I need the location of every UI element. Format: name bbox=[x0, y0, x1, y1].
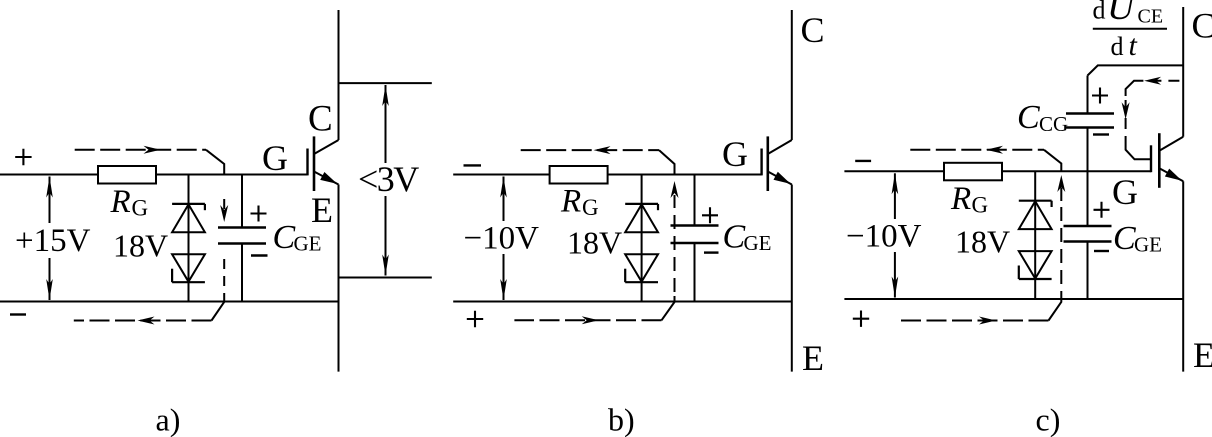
svg-text:C: C bbox=[801, 10, 825, 50]
resistor RG (a) bbox=[98, 166, 156, 184]
dashed path: down & bottom return (a) bbox=[223, 259, 225, 296]
svg-text:d: d bbox=[1111, 32, 1124, 61]
capacitor CGE (a) bbox=[218, 226, 266, 229]
svg-text:CG: CG bbox=[1039, 112, 1068, 136]
svg-text:C: C bbox=[723, 219, 746, 256]
IGBT V (b): body bar bbox=[766, 136, 769, 191]
supply + terminal (c) bbox=[853, 311, 869, 327]
IGBT V (a): emitter stroke bbox=[314, 172, 339, 185]
arrow left on bottom dashed path (a) bbox=[138, 317, 155, 325]
supply + terminal (b) bbox=[467, 311, 483, 327]
IGBT V (c): body bar bbox=[1158, 133, 1161, 188]
arrow right on top dashed path (a) bbox=[144, 146, 161, 154]
zener diode VS2 (c) bbox=[1019, 251, 1052, 278]
capacitor + polarity (a) bbox=[251, 206, 267, 222]
svg-text:GE: GE bbox=[1134, 233, 1162, 257]
wire: emitter lead (b) bbox=[791, 185, 793, 372]
wire: top rail (b) bbox=[453, 174, 761, 176]
wire: collector stub (a) bbox=[339, 82, 432, 84]
IGBT V (b): collector stroke bbox=[768, 140, 792, 154]
svg-text:c): c) bbox=[1036, 402, 1061, 437]
dashed path: gate discharge arrow (c) bbox=[1060, 188, 1062, 202]
supply - terminal (b) bbox=[464, 164, 482, 166]
wire: collector lead (b) bbox=[791, 10, 793, 140]
svg-text:G: G bbox=[262, 138, 288, 178]
voltage arrow <3V line (a) bbox=[385, 85, 387, 163]
svg-text:18V: 18V bbox=[567, 225, 622, 261]
capacitor CCG (c) bbox=[1066, 112, 1114, 115]
wire: emitter stub (a) bbox=[339, 277, 432, 279]
wire: collector lead (a) bbox=[338, 10, 340, 140]
svg-text:t: t bbox=[1129, 29, 1138, 62]
wire: b branch bbox=[641, 175, 643, 302]
capacitor CGE - polarity (c) bbox=[1094, 250, 1109, 252]
IGBT V (b): gate bar bbox=[760, 149, 762, 176]
wire: CCG top link to collector (c) bbox=[1088, 65, 1184, 75]
capacitor - polarity (a) bbox=[251, 254, 268, 256]
wire: CGE branch lower (a) bbox=[241, 244, 243, 302]
wire: bottom rail (c) bbox=[844, 298, 1183, 300]
voltage arrow -10V line (b) bbox=[503, 177, 505, 222]
svg-text:C: C bbox=[1017, 99, 1040, 136]
svg-text:C: C bbox=[1113, 220, 1136, 257]
svg-text:G: G bbox=[582, 195, 599, 220]
dashed path: top discharge current (b) bbox=[521, 149, 659, 151]
IGBT V (a): collector stroke bbox=[314, 140, 339, 154]
zener diode VS2 (a) bbox=[172, 254, 205, 281]
arrow left on top dashed path (b) bbox=[594, 146, 611, 154]
svg-text:R: R bbox=[560, 184, 581, 220]
IGBT V (b): emitter stroke bbox=[768, 172, 792, 185]
IGBT V (b): emitter arrow bbox=[774, 172, 791, 184]
wire: a branch bbox=[188, 175, 190, 302]
svg-text:a): a) bbox=[156, 402, 181, 437]
wire: CGE branch upper (b) bbox=[694, 175, 696, 226]
capacitor + polarity (b) bbox=[702, 207, 718, 223]
svg-text:GE: GE bbox=[294, 232, 322, 256]
zener diode VS1 (a) bbox=[172, 203, 205, 205]
wire: emitter lead (a) bbox=[338, 185, 340, 372]
svg-text:d: d bbox=[1093, 0, 1106, 25]
wire: emitter lead (c) bbox=[1182, 181, 1184, 371]
svg-text:G: G bbox=[972, 193, 989, 218]
arrow left on top dashed path (c) bbox=[986, 146, 1003, 154]
IGBT V (a): body bar bbox=[313, 136, 316, 191]
svg-text:b): b) bbox=[608, 402, 635, 437]
voltage arrow -10V line (c) bbox=[894, 173, 896, 219]
svg-text:+15V: +15V bbox=[15, 223, 91, 259]
capacitor CGE + polarity (c) bbox=[1094, 202, 1110, 218]
wire: top rail (c) bbox=[844, 170, 1151, 172]
svg-text:G: G bbox=[1112, 172, 1138, 212]
wire: bottom rail (b) bbox=[453, 301, 792, 303]
capacitor CCG + polarity (c) bbox=[1092, 88, 1108, 104]
arrow down on Miller dashed path (c) bbox=[1122, 102, 1130, 119]
dashed path: gate discharge arrow (b) bbox=[674, 195, 676, 208]
supply - terminal (a) bbox=[10, 313, 26, 315]
svg-text:<3V: <3V bbox=[358, 159, 419, 199]
svg-text:C: C bbox=[308, 99, 333, 140]
wire: collector lead (c) bbox=[1182, 7, 1184, 137]
wire: c branch bbox=[1034, 171, 1036, 299]
svg-text:CE: CE bbox=[1138, 6, 1164, 28]
IGBT V (c): emitter stroke bbox=[1159, 168, 1183, 181]
zener diode VS1 (c) bbox=[1019, 200, 1052, 202]
IGBT V (c): gate bar bbox=[1150, 145, 1152, 172]
capacitor CGE (b) bbox=[671, 224, 719, 227]
capacitor CGE (c) bbox=[1064, 225, 1112, 228]
svg-text:18V: 18V bbox=[113, 228, 168, 264]
resistor RG (c) bbox=[944, 163, 1002, 181]
wire: CGE branch lower (b) bbox=[694, 243, 696, 302]
IGBT V (a): emitter arrow bbox=[320, 172, 337, 184]
svg-text:R: R bbox=[950, 181, 971, 217]
arrow right on bottom dashed path (c) bbox=[979, 317, 996, 325]
dashed path: down & bottom return (c) bbox=[1060, 207, 1062, 296]
zener diode VS2 (b) bbox=[625, 254, 658, 281]
wire: top rail (a) bbox=[0, 174, 308, 176]
IGBT V (c): emitter arrow bbox=[1165, 169, 1182, 181]
svg-text:C: C bbox=[273, 219, 296, 256]
IGBT V (a): gate bar bbox=[306, 149, 308, 176]
svg-text:C: C bbox=[1192, 6, 1212, 46]
fraction bar dUCE/dt (c) bbox=[1093, 28, 1167, 30]
dashed path: down & bottom return (b) bbox=[674, 215, 676, 296]
voltage arrow +15V line (a) bbox=[49, 177, 51, 224]
supply - terminal (c) bbox=[855, 160, 871, 162]
capacitor CCG - polarity (c) bbox=[1093, 133, 1109, 135]
svg-text:R: R bbox=[110, 184, 131, 220]
zener diode VS1 (b) bbox=[625, 203, 658, 205]
dashed path: top discharge current (c) bbox=[910, 149, 1044, 151]
capacitor - polarity (b) bbox=[704, 251, 719, 253]
wire: CCG/CGE branch (c) bbox=[1087, 76, 1089, 114]
supply + terminal (a) bbox=[15, 149, 31, 165]
svg-text:G: G bbox=[132, 196, 149, 221]
resistor RG (b) bbox=[550, 166, 608, 184]
svg-text:E: E bbox=[1193, 335, 1212, 375]
svg-text:E: E bbox=[802, 338, 824, 378]
svg-text:U: U bbox=[1107, 0, 1137, 27]
svg-text:−10V: −10V bbox=[846, 219, 922, 255]
dashed path: gate charge arrow (a) bbox=[223, 199, 225, 209]
svg-text:G: G bbox=[722, 134, 748, 174]
svg-text:−10V: −10V bbox=[464, 221, 540, 257]
IGBT V (c): collector stroke bbox=[1159, 137, 1183, 151]
dashed path: top charge current (a) bbox=[75, 149, 206, 151]
arrow left on Miller dashed path (c) bbox=[1144, 77, 1161, 85]
wire: CGE branch upper (a) bbox=[241, 175, 243, 228]
dashed path: Miller dv/dt current (c) bbox=[1140, 80, 1179, 82]
arrow right on bottom dashed path (b) bbox=[582, 316, 599, 324]
svg-text:GE: GE bbox=[744, 231, 772, 255]
wire: bottom rail (a) bbox=[0, 301, 339, 303]
svg-text:E: E bbox=[311, 190, 333, 230]
svg-text:18V: 18V bbox=[955, 224, 1010, 260]
